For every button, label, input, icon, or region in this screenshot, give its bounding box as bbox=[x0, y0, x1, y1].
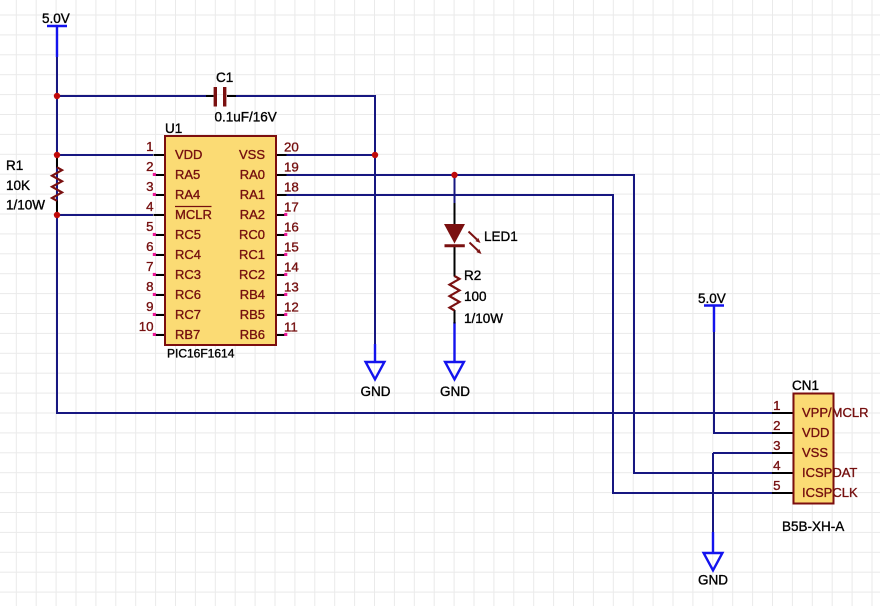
svg-text:RC2: RC2 bbox=[239, 267, 265, 282]
svg-text:RA5: RA5 bbox=[175, 167, 200, 182]
svg-text:2: 2 bbox=[773, 418, 780, 433]
svg-text:17: 17 bbox=[284, 200, 299, 215]
svg-text:19: 19 bbox=[284, 160, 299, 175]
svg-text:R1: R1 bbox=[6, 158, 23, 173]
svg-text:RB4: RB4 bbox=[240, 287, 265, 302]
svg-text:3: 3 bbox=[773, 438, 780, 453]
svg-text:RA4: RA4 bbox=[175, 187, 200, 202]
svg-text:VSS: VSS bbox=[239, 147, 265, 162]
svg-text:RC5: RC5 bbox=[175, 227, 201, 242]
svg-text:100: 100 bbox=[464, 289, 487, 304]
svg-text:CN1: CN1 bbox=[792, 378, 819, 393]
svg-text:VDD: VDD bbox=[175, 147, 202, 162]
svg-text:1/10W: 1/10W bbox=[464, 311, 503, 326]
svg-text:ICSPDAT: ICSPDAT bbox=[802, 465, 857, 480]
svg-text:9: 9 bbox=[146, 299, 153, 314]
svg-text:1/10W: 1/10W bbox=[6, 198, 45, 213]
svg-text:7: 7 bbox=[146, 259, 153, 274]
svg-text:RB5: RB5 bbox=[240, 307, 265, 322]
svg-text:RC6: RC6 bbox=[175, 287, 201, 302]
svg-text:4: 4 bbox=[146, 199, 153, 214]
svg-text:RA2: RA2 bbox=[240, 207, 265, 222]
svg-text:2: 2 bbox=[146, 159, 153, 174]
svg-text:10: 10 bbox=[139, 319, 154, 334]
svg-text:RA0: RA0 bbox=[240, 167, 265, 182]
svg-text:U1: U1 bbox=[165, 121, 182, 136]
svg-text:VDD: VDD bbox=[802, 425, 829, 440]
svg-text:GND: GND bbox=[698, 573, 728, 588]
svg-text:B5B-XH-A: B5B-XH-A bbox=[782, 519, 844, 534]
svg-text:5.0V: 5.0V bbox=[698, 291, 726, 306]
svg-text:RC7: RC7 bbox=[175, 307, 201, 322]
svg-text:13: 13 bbox=[284, 280, 299, 295]
svg-text:8: 8 bbox=[146, 279, 153, 294]
svg-text:4: 4 bbox=[773, 458, 780, 473]
svg-text:GND: GND bbox=[361, 384, 391, 399]
svg-text:18: 18 bbox=[284, 180, 299, 195]
svg-text:RC0: RC0 bbox=[239, 227, 265, 242]
svg-text:3: 3 bbox=[146, 179, 153, 194]
svg-text:5.0V: 5.0V bbox=[42, 11, 70, 26]
svg-text:11: 11 bbox=[284, 320, 298, 335]
svg-text:RA1: RA1 bbox=[240, 187, 265, 202]
svg-text:C1: C1 bbox=[216, 70, 233, 85]
svg-text:5: 5 bbox=[773, 478, 780, 493]
svg-text:VSS: VSS bbox=[802, 445, 828, 460]
svg-text:ICSPCLK: ICSPCLK bbox=[802, 485, 858, 500]
svg-text:16: 16 bbox=[284, 220, 299, 235]
svg-text:R2: R2 bbox=[464, 268, 481, 283]
svg-text:10K: 10K bbox=[6, 178, 30, 193]
svg-text:RC1: RC1 bbox=[239, 247, 265, 262]
svg-text:RB6: RB6 bbox=[240, 327, 265, 342]
svg-text:14: 14 bbox=[284, 260, 299, 275]
svg-text:RC4: RC4 bbox=[175, 247, 201, 262]
svg-text:0.1uF/16V: 0.1uF/16V bbox=[215, 110, 277, 125]
svg-text:5: 5 bbox=[146, 219, 153, 234]
svg-text:VPP/MCLR: VPP/MCLR bbox=[802, 405, 868, 420]
svg-text:1: 1 bbox=[773, 398, 780, 413]
svg-text:15: 15 bbox=[284, 240, 299, 255]
svg-text:MCLR: MCLR bbox=[175, 207, 212, 222]
svg-text:RB7: RB7 bbox=[175, 327, 200, 342]
svg-text:RC3: RC3 bbox=[175, 267, 201, 282]
svg-text:6: 6 bbox=[146, 239, 153, 254]
svg-text:LED1: LED1 bbox=[484, 229, 518, 244]
svg-text:GND: GND bbox=[440, 384, 470, 399]
svg-text:1: 1 bbox=[146, 139, 153, 154]
svg-text:12: 12 bbox=[284, 300, 299, 315]
svg-text:PIC16F1614: PIC16F1614 bbox=[167, 347, 235, 361]
svg-text:20: 20 bbox=[284, 140, 299, 155]
